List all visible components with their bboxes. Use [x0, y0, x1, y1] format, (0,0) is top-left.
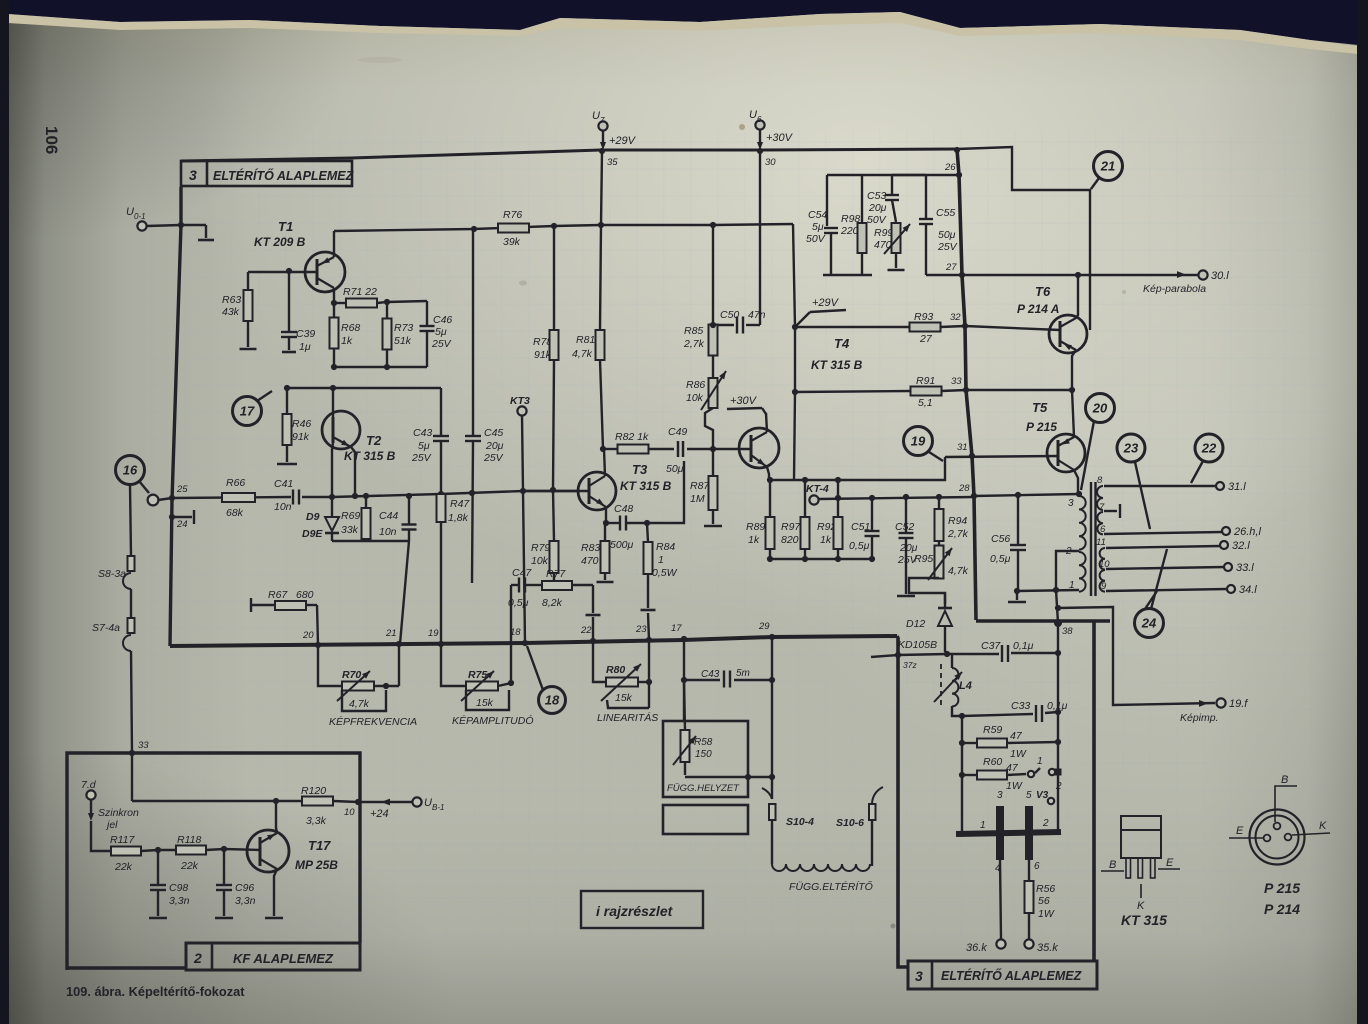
svg-text:1k: 1k [820, 534, 832, 546]
junction C45 top [471, 226, 477, 232]
callout line circle 19 [929, 452, 943, 461]
svg-text:R71 22: R71 22 [343, 286, 377, 298]
svg-text:35: 35 [607, 157, 618, 168]
svg-text:5m: 5m [736, 668, 750, 679]
transformer primary coil [1065, 496, 1086, 592]
junction 21 [385, 628, 402, 647]
capacitor C37 [981, 640, 1034, 662]
terminal 35.k [1024, 939, 1058, 954]
svg-text:25V: 25V [411, 452, 432, 464]
svg-text:C48: C48 [614, 503, 633, 515]
junction C44 top [406, 493, 412, 499]
svg-text:R79: R79 [531, 542, 550, 554]
wire input to 25 [158, 498, 172, 500]
svg-text:R91: R91 [916, 375, 935, 387]
resistor R93 [910, 311, 941, 345]
svg-text:R69: R69 [341, 510, 360, 522]
junction C56 top [1015, 492, 1021, 498]
capacitor C52 [895, 497, 918, 594]
junction T6 emitter top [1075, 272, 1081, 278]
resistor R84 [644, 523, 678, 608]
wire box edge to D12 [898, 654, 947, 655]
junction T3 emitter [603, 520, 609, 526]
ground bar under R83 [597, 581, 614, 584]
junction R59 right [1055, 739, 1061, 745]
wire R120 line [132, 800, 302, 802]
svg-text:S10-4: S10-4 [786, 816, 814, 828]
svg-text:34.l: 34.l [1239, 584, 1257, 596]
label KT 315 lead B [1101, 859, 1124, 871]
junction C98 top [155, 847, 161, 853]
svg-text:B: B [1109, 859, 1116, 871]
wire 7d arrow [88, 800, 94, 821]
svg-text:C52: C52 [895, 521, 914, 533]
svg-text:1W: 1W [1038, 908, 1055, 920]
svg-text:10k: 10k [531, 555, 549, 567]
potentiometer R70 [318, 644, 399, 711]
svg-text:2: 2 [1042, 818, 1049, 829]
svg-text:T4: T4 [834, 336, 850, 351]
svg-text:R94: R94 [948, 515, 967, 527]
junction 24 node [169, 514, 188, 530]
label LINEARITAS [597, 711, 658, 724]
svg-text:1: 1 [980, 820, 986, 831]
label +30V at T4 [727, 395, 766, 414]
svg-text:28: 28 [958, 483, 970, 494]
svg-text:C96: C96 [235, 882, 254, 894]
label +29V tap [797, 297, 846, 325]
capacitor C55 [919, 175, 962, 275]
svg-text:31.l: 31.l [1228, 481, 1246, 493]
svg-text:1W: 1W [1006, 780, 1023, 792]
junction 32 [950, 312, 968, 329]
svg-text:500μ: 500μ [610, 539, 634, 551]
transistor T5 [1047, 434, 1085, 472]
wire U6 arrow [757, 130, 794, 150]
junction C51 top [869, 495, 875, 501]
wire R86 wiper loop [705, 408, 713, 449]
svg-text:38: 38 [1062, 626, 1073, 637]
junction R69 top [363, 493, 369, 499]
svg-text:R83: R83 [581, 542, 600, 554]
diode D9 [302, 497, 339, 541]
capacitor C43b [701, 668, 750, 688]
svg-text:KT 315 B: KT 315 B [620, 479, 672, 493]
junction KT3 T3base [520, 488, 526, 494]
resistor R76 [498, 209, 529, 248]
svg-text:R86: R86 [686, 379, 705, 391]
svg-text:4,7k: 4,7k [572, 348, 593, 360]
svg-text:T3: T3 [632, 462, 648, 477]
wire left bus x962 [961, 716, 963, 831]
svg-text:U: U [592, 110, 600, 122]
junction D12 L4 C37 [944, 651, 950, 657]
wire T4 collector [766, 413, 767, 432]
svg-text:R84: R84 [656, 541, 675, 553]
wire thick 38 horizontal [976, 619, 1110, 623]
junction 31 [957, 442, 975, 459]
junction R75 right [508, 680, 514, 686]
wire 17 down [683, 639, 685, 722]
wire tap 7 [1104, 504, 1120, 518]
wire T1 emitter [333, 288, 335, 303]
numbered circle 21 [1094, 152, 1123, 181]
transistor T3 labels [620, 462, 672, 493]
label connector pin 1 [980, 820, 986, 831]
transistor T4 [739, 428, 779, 468]
junction R92 bottom [835, 556, 841, 562]
callout line circle 24 b [1151, 549, 1167, 609]
board box bottom right [897, 622, 1094, 989]
contact stub at U0-1 [181, 225, 214, 240]
capacitor C50 [713, 309, 766, 334]
capacitor C96 [216, 849, 256, 916]
paper speck a [739, 124, 745, 130]
svg-text:150: 150 [695, 749, 712, 760]
svg-text:36.k: 36.k [966, 942, 987, 954]
svg-text:25V: 25V [937, 241, 958, 253]
junction R97 top [802, 477, 808, 483]
dark scanner edge left [0, 0, 9, 1024]
label KEPAMPLITUDO [452, 714, 534, 727]
capacitor C49 [666, 426, 687, 475]
terminal 26.h.l [1222, 526, 1261, 538]
transistor T5 labels [1026, 400, 1057, 434]
svg-text:R93: R93 [914, 311, 933, 323]
junction 33-T5 [1069, 387, 1075, 393]
svg-text:R68: R68 [341, 322, 360, 334]
wire KT-4 line [818, 497, 974, 499]
label connector pin 4 [995, 863, 1001, 874]
svg-text:20μ: 20μ [485, 440, 504, 452]
svg-text:22: 22 [1201, 441, 1217, 456]
junction R70 wiper [383, 683, 389, 689]
svg-text:32: 32 [950, 312, 961, 323]
label connector pin 6 [1034, 861, 1040, 872]
svg-text:7: 7 [600, 116, 605, 125]
junction R59 left [959, 740, 965, 746]
terminal 30.l [1198, 270, 1229, 282]
svg-text:1: 1 [658, 554, 664, 566]
svg-text:1W: 1W [1010, 748, 1027, 760]
svg-text:7.d: 7.d [81, 779, 97, 791]
dark scanner edge right [1357, 0, 1368, 1024]
junction 27 [945, 262, 965, 278]
svg-text:50V: 50V [806, 233, 826, 245]
wire L4 bottom [952, 706, 962, 716]
switch S8-3a [98, 485, 135, 589]
resistor R87 [690, 449, 718, 524]
svg-text:30: 30 [765, 157, 776, 168]
junction 30 on rail [757, 148, 776, 168]
svg-text:22k: 22k [114, 861, 133, 873]
junction 28 [958, 483, 977, 499]
svg-text:C39: C39 [296, 328, 315, 340]
resistor R63 [222, 272, 253, 347]
svg-text:19: 19 [428, 628, 439, 639]
callout line circle 23 [1135, 462, 1150, 529]
svg-text:33k: 33k [341, 524, 359, 536]
square junction R60 line [1055, 769, 1062, 776]
numbered circle 23 [1117, 434, 1145, 462]
wire U0-1 to box edge [147, 225, 181, 226]
junction R46 top [284, 385, 290, 391]
wire T3 emitter [605, 507, 607, 523]
transistor T1 [305, 252, 345, 292]
terminal signal input [148, 495, 159, 506]
svg-text:R85: R85 [684, 325, 703, 337]
wire T2 collector [332, 388, 334, 417]
wire L4 top [951, 654, 953, 668]
capacitor C54 [806, 175, 838, 275]
wire connector crossbar [956, 832, 1061, 834]
wire node26 to C55 top [892, 174, 926, 176]
junction 26 [944, 162, 962, 178]
board label box 3 ELTERITO ALAPLEMEZ (top left) [181, 161, 355, 186]
numbered circle 22 [1195, 434, 1223, 462]
wire C33 line [962, 712, 1058, 716]
svg-text:91k: 91k [292, 431, 310, 443]
junction tap2 bottom [1053, 587, 1059, 593]
paper speck b [519, 281, 527, 286]
terminal U6 [749, 109, 765, 130]
svg-text:20: 20 [1092, 401, 1108, 416]
junction R60 left [959, 772, 965, 778]
board label box 2 KF ALAPLEMEZ [186, 943, 360, 970]
svg-text:3,3k: 3,3k [306, 815, 327, 827]
svg-text:47n: 47n [748, 309, 766, 321]
junction T3 collector node [600, 446, 606, 452]
svg-text:21: 21 [385, 628, 397, 639]
ground bar under R46 [277, 463, 297, 466]
box i rajzreszlet [581, 891, 703, 928]
transistor T4 labels [811, 336, 863, 372]
terminal 36.k [966, 939, 1006, 954]
svg-text:C37: C37 [981, 640, 1001, 652]
svg-text:C56: C56 [991, 533, 1010, 545]
transformer secondary 11-10-9 [1096, 537, 1110, 592]
svg-text:L4: L4 [959, 680, 972, 692]
wire cap bank bottom rail [823, 274, 872, 276]
svg-text:1k: 1k [341, 335, 353, 347]
junction C39 top [286, 268, 292, 274]
svg-text:24: 24 [1141, 616, 1157, 631]
svg-text:0,5μ: 0,5μ [990, 553, 1011, 565]
svg-text:R97: R97 [781, 521, 801, 533]
page number 106 [42, 126, 61, 154]
svg-text:10: 10 [344, 807, 355, 818]
wire 38 vertical [1056, 590, 1058, 830]
resistor R81 [572, 225, 605, 449]
wire emitter bottom bus [334, 366, 427, 368]
svg-text:S7-4a: S7-4a [92, 622, 120, 634]
label KT 315 lead E [1158, 857, 1180, 869]
svg-text:31: 31 [957, 442, 968, 453]
transistor T17 labels [295, 838, 338, 872]
junction T2 emitter node [352, 493, 358, 499]
junction R58 box edge [745, 774, 751, 780]
junction R78 bottom [550, 487, 556, 493]
box FUGG HELYZET [663, 721, 748, 834]
resistor R120 [301, 785, 358, 827]
junction 17 node [671, 623, 687, 642]
junction 23 node [635, 624, 652, 643]
svg-text:109. ábra. Képeltérítő-fokozat: 109. ábra. Képeltérítő-fokozat [66, 984, 245, 999]
label P215 lead K [1292, 820, 1330, 835]
junction R78 top [551, 223, 557, 229]
wire T2 base [332, 443, 333, 497]
terminal KT3 [510, 395, 530, 416]
svg-text:2: 2 [193, 950, 202, 966]
junction kepimp [1055, 605, 1061, 611]
svg-text:1M: 1M [690, 493, 705, 505]
label connector pin 2 [1042, 818, 1049, 829]
resistor R77 [542, 568, 572, 609]
resistor R89 [746, 480, 775, 559]
ground bar under C56 [1008, 591, 1026, 602]
junction 22 node [580, 625, 596, 644]
svg-text:K: K [1137, 900, 1145, 912]
wire +24 feed [358, 799, 412, 820]
capacitor C43 [411, 388, 449, 494]
wire T3 collector [604, 449, 605, 476]
svg-text:C47: C47 [512, 567, 532, 579]
wire tap 10 [1106, 567, 1224, 569]
wire T4 base [713, 448, 751, 450]
svg-text:11: 11 [1096, 537, 1106, 548]
svg-text:3: 3 [915, 968, 923, 984]
label P215 lead B [1275, 774, 1297, 822]
label P215 lead E [1229, 825, 1263, 838]
junction T2 base [329, 494, 335, 500]
svg-text:R118: R118 [177, 834, 201, 846]
svg-text:43k: 43k [222, 306, 240, 318]
svg-text:C43: C43 [701, 669, 720, 680]
junction R86 R87 T4 base [710, 446, 716, 452]
junction R73 bottom [384, 364, 390, 370]
svg-text:R46: R46 [292, 418, 311, 430]
svg-text:30.l: 30.l [1211, 270, 1229, 282]
junction 38 [1054, 619, 1073, 637]
svg-text:470: 470 [581, 555, 599, 567]
callout line circle 21 [1091, 178, 1099, 189]
numbered circle 24 [1135, 609, 1164, 638]
label kep-parabola [1143, 283, 1206, 295]
terminal U0-1 [126, 206, 147, 231]
svg-text:R66: R66 [226, 477, 245, 489]
svg-text:0,5μ: 0,5μ [849, 540, 870, 552]
wire left box edge [170, 187, 181, 646]
label P 214 [1264, 901, 1300, 917]
svg-text:P 214 A: P 214 A [1017, 302, 1059, 316]
svg-text:MP 25B: MP 25B [295, 858, 338, 872]
switch S7-4a [92, 589, 135, 753]
capacitor C56 [990, 495, 1026, 591]
wire R95 wiper loop [909, 578, 945, 604]
svg-text:2,7k: 2,7k [683, 338, 705, 350]
junction +29V R93 [792, 324, 798, 330]
terminal 19.f [1216, 698, 1248, 710]
resistor R97 [781, 480, 810, 559]
svg-text:5μ: 5μ [435, 326, 447, 338]
junction C51 bottom [869, 556, 875, 562]
wire thick vertical 26-28 [957, 149, 974, 496]
label Szinkron jel [98, 807, 139, 831]
svg-text:17: 17 [240, 404, 255, 419]
svg-text:jel: jel [105, 819, 118, 831]
junction R92 top [835, 477, 841, 483]
junction on box edge at U0-1 [178, 222, 184, 228]
svg-text:T5: T5 [1032, 400, 1048, 415]
wire rail corner to node 26 path [957, 147, 1090, 330]
svg-text:21: 21 [1100, 159, 1115, 174]
svg-text:C33: C33 [1011, 700, 1030, 712]
wire S10-6 top link [871, 655, 898, 657]
wire R77 to node 22 [572, 585, 601, 641]
svg-text:R60: R60 [983, 756, 1002, 768]
junction C37 right [1055, 650, 1061, 656]
terminal UB-1 [412, 797, 444, 812]
switch contact 1 [1028, 756, 1058, 777]
wire divider bottom bus [770, 558, 872, 560]
junction R85 top [710, 222, 716, 228]
junction 35 on rail [599, 148, 618, 168]
wire T1 collector [333, 231, 335, 257]
wire T4 emitter rail [769, 457, 945, 480]
potentiometer R99 [874, 222, 912, 268]
junction R47 top [438, 491, 444, 497]
svg-text:27: 27 [945, 262, 957, 273]
wire T6 base [965, 326, 1060, 330]
svg-text:R81: R81 [576, 334, 595, 346]
ground bar under T17 [265, 917, 283, 920]
svg-text:KT 315: KT 315 [1121, 912, 1167, 928]
svg-text:47: 47 [1010, 730, 1023, 742]
numbered circle 16 [116, 456, 145, 485]
resistor R69 [341, 496, 371, 541]
svg-text:C43: C43 [413, 427, 432, 439]
wire pin1 tap [1017, 590, 1079, 591]
junction 29 node [758, 621, 775, 640]
package drawing KT 315 legs [1126, 858, 1155, 878]
package drawing KT 315 body [1121, 816, 1161, 858]
svg-text:5,1: 5,1 [918, 397, 933, 409]
svg-text:26.h,l: 26.h,l [1233, 526, 1261, 538]
paper speck d [1122, 290, 1126, 294]
wire C44 bus down to 21 [400, 541, 409, 644]
svg-text:33.l: 33.l [1236, 562, 1254, 574]
svg-text:R58: R58 [694, 737, 713, 748]
svg-text:B: B [1281, 774, 1288, 786]
transformer core [1091, 482, 1096, 596]
wire T17 base [224, 849, 260, 850]
svg-text:B-1: B-1 [432, 803, 444, 812]
resistor R85 [683, 225, 718, 378]
callout line circle 20 [1081, 421, 1094, 490]
svg-text:D9: D9 [306, 511, 320, 523]
svg-text:20μ: 20μ [868, 202, 887, 214]
ground bar under C52 [897, 595, 915, 598]
svg-text:Kép-parabola: Kép-parabola [1143, 283, 1206, 295]
wire 33 down [131, 753, 133, 801]
svg-text:19.f: 19.f [1229, 698, 1248, 710]
wire r58 top line [684, 679, 772, 681]
svg-text:4,7k: 4,7k [948, 565, 969, 577]
svg-text:C54: C54 [808, 209, 827, 221]
wire R82 line [604, 448, 713, 450]
resistor R71 [334, 286, 387, 308]
svg-text:50V: 50V [867, 214, 887, 226]
